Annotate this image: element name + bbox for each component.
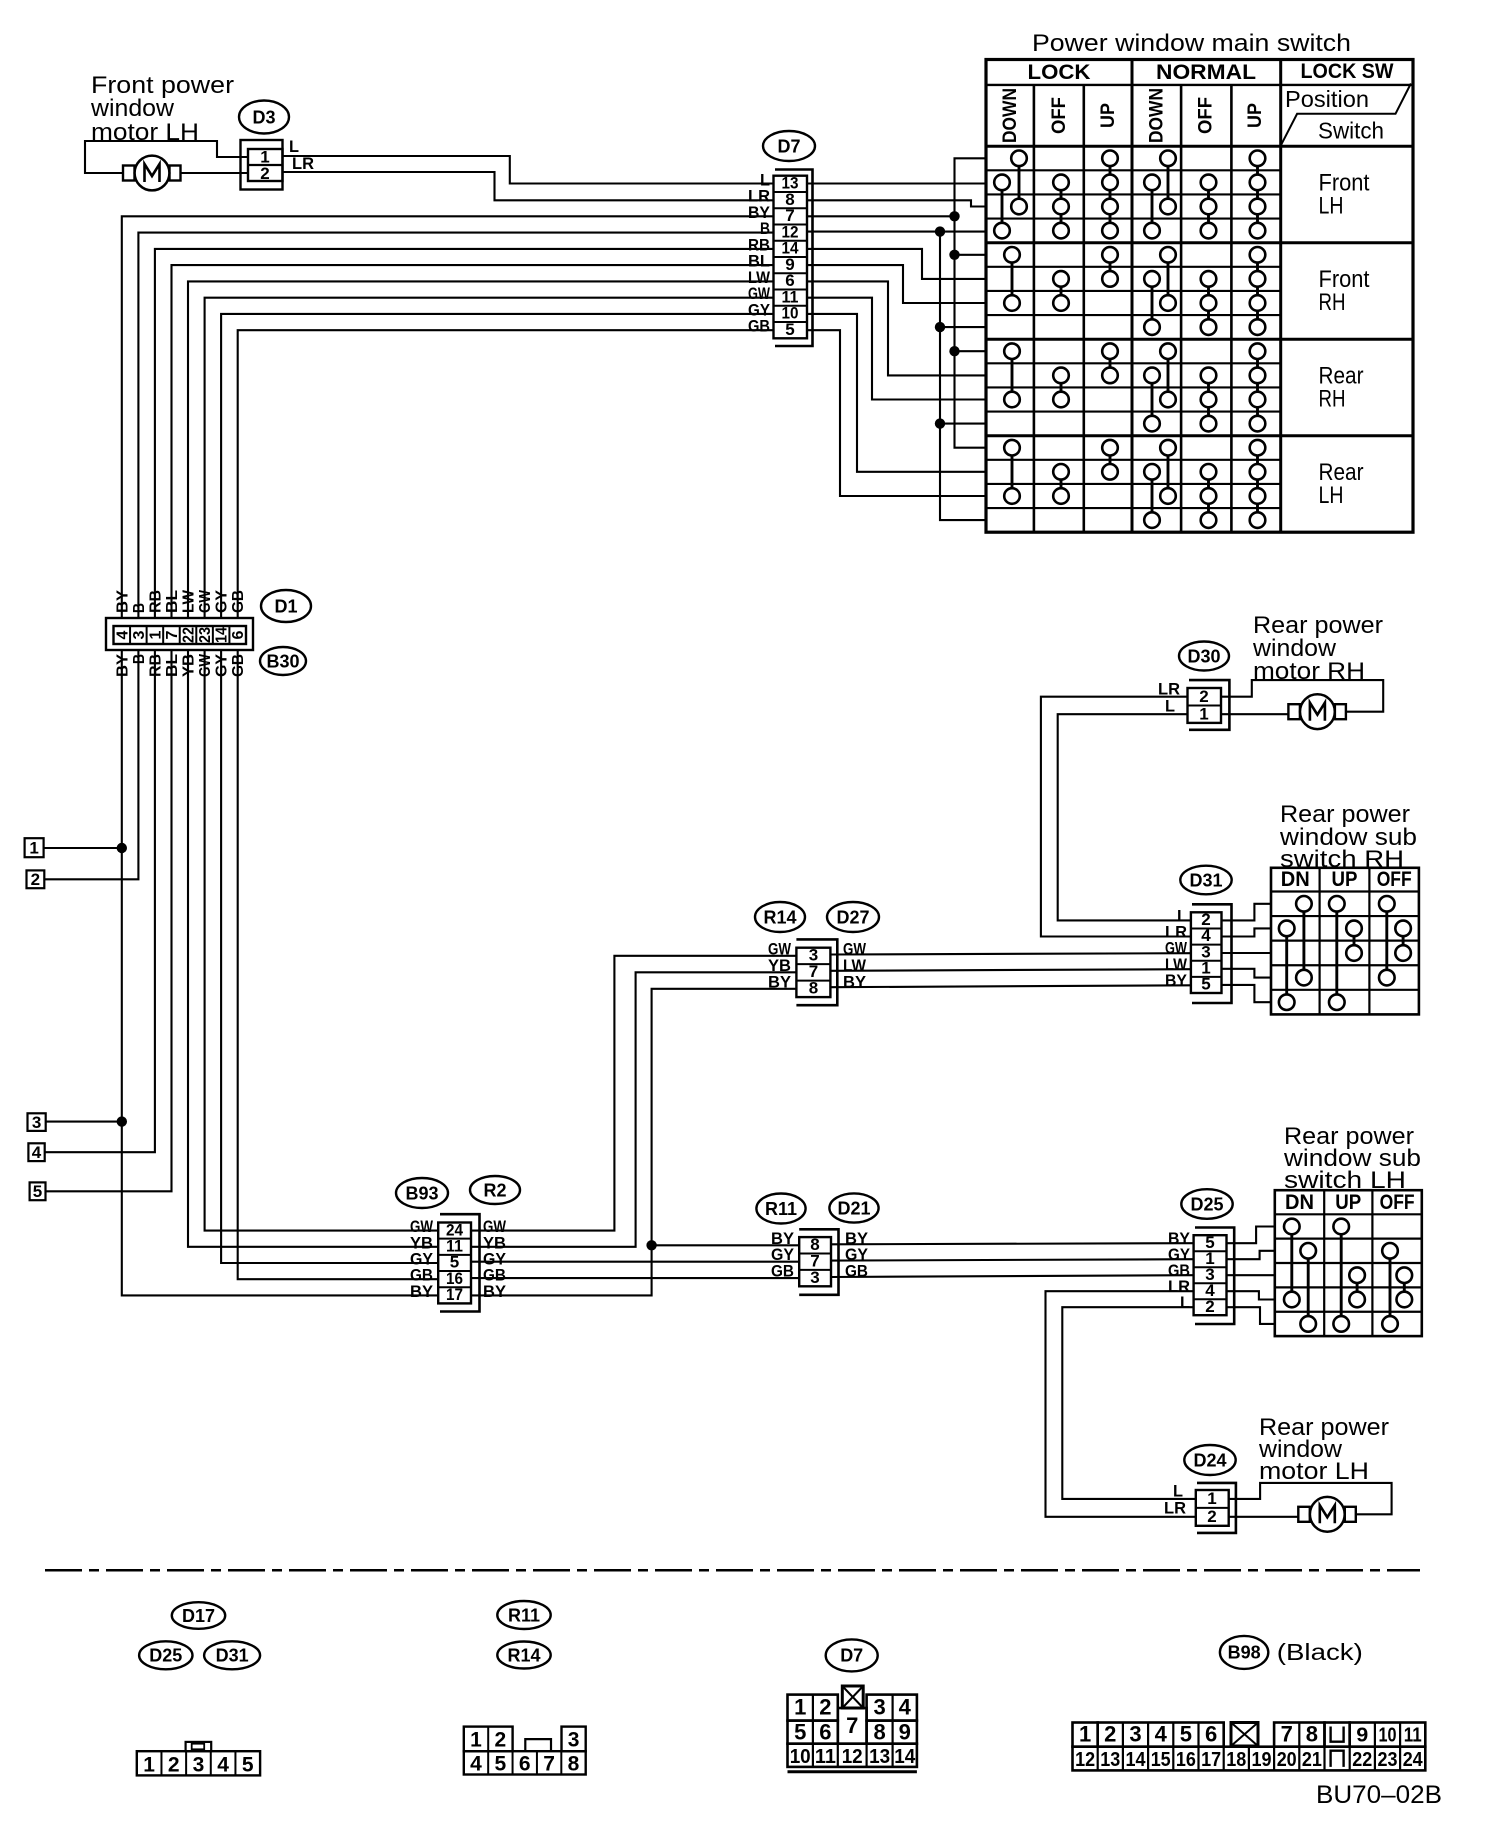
connector designator R14 [755, 902, 805, 932]
wire labels at R11 left [771, 1229, 795, 1281]
wire GW: R2 up to R14 pin3 [471, 956, 796, 1231]
wire GW: B30 down to B93 pin24 [205, 650, 439, 1231]
wire labels at D25 left [1168, 1229, 1191, 1312]
wire: motor right tab to D3 pin 2 [180, 172, 249, 174]
wire L: D25 pin2 down to D24 pin1 [1062, 1307, 1196, 1499]
connector designator B30 [260, 647, 306, 675]
wire LW: D27 to D31 pin1 [830, 969, 1191, 971]
svg-text:2: 2 [1104, 1722, 1116, 1747]
label: Rear power window motor RH [1252, 612, 1383, 685]
svg-text:R14: R14 [763, 907, 796, 927]
svg-text:4: 4 [470, 1752, 482, 1775]
contacts Front LH group [994, 151, 1265, 239]
wire: D30 pin2 loop over motor [1221, 680, 1383, 712]
bus B vertical to switch rows 8 12 16 [940, 232, 986, 520]
svg-text:18: 18 [1226, 1749, 1246, 1771]
rotated headers DOWN OFF UP [1000, 88, 1266, 143]
wire BL: D7 pin9 to switch row7 [807, 265, 986, 303]
svg-text:LOCK SW: LOCK SW [1301, 60, 1394, 83]
wire L: D7 pin13 to switch row2 [807, 182, 986, 184]
wire LW: D7 pin6 to switch row10 [807, 281, 986, 375]
label: Rear power window sub switch LH [1283, 1123, 1421, 1194]
svg-text:9: 9 [899, 1720, 911, 1745]
wire GY: B30 down to B93 pin5 [221, 650, 438, 1263]
svg-text:20: 20 [1277, 1749, 1297, 1771]
svg-text:1: 1 [1199, 705, 1208, 724]
svg-text:BU70–02B: BU70–02B [1316, 1781, 1442, 1809]
svg-text:D7: D7 [777, 136, 800, 156]
tag 3 box and wire [28, 1113, 122, 1132]
svg-text:LH: LH [1319, 192, 1344, 219]
svg-text:16: 16 [1176, 1749, 1196, 1771]
svg-text:DOWN: DOWN [1000, 88, 1021, 143]
svg-text:24: 24 [1403, 1749, 1424, 1771]
connector designator R2 [470, 1176, 520, 1204]
svg-text:1: 1 [29, 838, 38, 857]
wire BY: D27 to D31 pin5 [830, 985, 1191, 987]
svg-text:5: 5 [242, 1754, 254, 1777]
wire GW: D7 pin11 to switch row11 [807, 298, 986, 400]
connector R14/D27 with pins 3 7 8 [796, 939, 837, 1005]
svg-text:17: 17 [1201, 1749, 1221, 1771]
wire labels above D1 [114, 589, 247, 613]
wire GB: R2 to R11 pin3 [471, 1277, 799, 1279]
svg-text:2: 2 [819, 1695, 831, 1720]
svg-text:8: 8 [568, 1752, 580, 1775]
wire GW: D27 to D31 pin3 [830, 953, 1191, 954]
wire: D30 pin1 to motor [1221, 713, 1288, 715]
wires D31 pins to sub table [1222, 904, 1272, 1002]
svg-text:4: 4 [114, 630, 131, 639]
svg-text:19: 19 [1252, 1749, 1272, 1771]
wires D25 pins to sub table [1227, 1227, 1275, 1324]
svg-text:D17: D17 [182, 1606, 215, 1626]
svg-text:Power window main switch: Power window main switch [1032, 30, 1351, 57]
connector designator R11 [756, 1194, 805, 1224]
wire GB: D7 pin5 to switch row15 [807, 330, 986, 496]
junction dot tag1 on BY [117, 843, 127, 853]
contacts Rear RH group [1004, 343, 1265, 431]
connector face view D7 pins 1-14 [788, 1686, 917, 1772]
wire labels at R2 right [483, 1217, 507, 1301]
wire BL: D1 up and across to D7 [172, 265, 775, 618]
svg-text:11: 11 [1404, 1725, 1422, 1747]
svg-text:D30: D30 [1187, 646, 1220, 666]
wire: D24 pin2 to motor [1229, 1516, 1299, 1518]
svg-text:D7: D7 [840, 1646, 863, 1666]
svg-text:22: 22 [1352, 1749, 1372, 1771]
connector designator R11 bottom [497, 1601, 550, 1629]
connector face view D17/D25/D31 pins 1-5 [137, 1742, 260, 1777]
svg-text:UP: UP [1245, 103, 1266, 128]
switch name Rear RH [1319, 362, 1364, 412]
svg-text:4: 4 [32, 1143, 42, 1162]
connector designator D17 bottom [172, 1602, 225, 1629]
svg-text:17: 17 [446, 1285, 463, 1304]
svg-text:BY: BY [483, 1282, 507, 1301]
svg-text:BL: BL [164, 590, 181, 613]
svg-text:15: 15 [1151, 1749, 1171, 1771]
svg-text:3: 3 [1129, 1722, 1141, 1747]
wire L: D31 pin2 up to D30 pin1 [1058, 714, 1191, 920]
svg-text:21: 21 [1302, 1749, 1322, 1771]
tag 5 box [30, 1182, 46, 1201]
wire LR: D31 pin4 up to D30 pin2 [1041, 697, 1191, 937]
svg-text:GY: GY [214, 590, 231, 613]
svg-text:GB: GB [771, 1262, 794, 1281]
wire: D24 pin1 loop over motor [1229, 1483, 1392, 1514]
svg-text:L: L [1165, 697, 1175, 716]
connector designator D3 [239, 101, 289, 134]
svg-text:GB: GB [748, 317, 770, 336]
switch name Rear LH [1319, 459, 1364, 509]
svg-text:3: 3 [193, 1754, 205, 1777]
connector designator D7 [763, 131, 815, 161]
wire RB: D7 pin14 to switch row6 [807, 249, 986, 279]
svg-text:R11: R11 [508, 1605, 540, 1625]
wire BY: R2 up to R14 pin8 and R11 pin8 [471, 989, 796, 1296]
svg-text:R2: R2 [483, 1180, 506, 1200]
svg-text:4: 4 [899, 1695, 912, 1720]
motor M front LH [123, 156, 181, 191]
svg-text:BY: BY [1165, 971, 1188, 990]
svg-text:2: 2 [1199, 687, 1208, 706]
connector D24 pins 1 2 [1196, 1483, 1236, 1533]
wire YB: B30 down to B93 pin11 [188, 650, 438, 1247]
tag 1 box and wire [25, 838, 122, 857]
svg-text:2: 2 [1205, 1297, 1214, 1316]
connector R11/D21 with pins 8 7 3 [799, 1229, 838, 1295]
svg-text:23: 23 [1378, 1749, 1398, 1771]
svg-text:R14: R14 [507, 1645, 540, 1665]
svg-text:B: B [131, 603, 148, 613]
svg-text:D31: D31 [1189, 870, 1222, 890]
svg-text:D25: D25 [1190, 1194, 1223, 1214]
svg-text:OFF: OFF [1049, 97, 1070, 134]
wire labels at D21 right [845, 1229, 869, 1281]
svg-text:2: 2 [168, 1754, 180, 1777]
junction dots on B bus [935, 226, 945, 236]
svg-text:1: 1 [147, 630, 164, 639]
svg-text:GW: GW [197, 589, 214, 613]
svg-text:LW: LW [181, 589, 198, 613]
wire BY: D7 pin7 to BY bus [807, 215, 955, 217]
power window main switch table grid [986, 60, 1413, 533]
wire LR: D3 pin2 to D7 pin8 [283, 172, 775, 200]
svg-text:B30: B30 [266, 651, 299, 671]
connector face view B98 pins 1-24 [1073, 1722, 1426, 1771]
svg-text:6: 6 [230, 630, 247, 639]
svg-text:3: 3 [32, 1113, 41, 1132]
wire RB: B30 down to tag 4 [45, 650, 155, 1152]
wire GY: D7 pin10 to switch row14 [807, 314, 986, 472]
svg-text:D21: D21 [837, 1198, 870, 1218]
wire GB: D1 up and across to D7 [238, 330, 774, 618]
wire B: D1 up and across to D7 [138, 233, 774, 618]
svg-text:11: 11 [815, 1746, 836, 1768]
svg-text:4: 4 [217, 1754, 229, 1777]
svg-text:3: 3 [131, 630, 148, 639]
svg-text:14: 14 [1126, 1749, 1147, 1771]
connector D25 pins 5 1 3 4 2 [1194, 1228, 1235, 1325]
wire GB: D21 to D25 pin3 [831, 1275, 1194, 1277]
wire BY: D21 to D25 pin5 [831, 1243, 1194, 1244]
wire labels at B93 left [410, 1217, 434, 1301]
svg-text:OFF: OFF [1196, 97, 1217, 134]
svg-text:7: 7 [1281, 1722, 1293, 1747]
svg-text:7: 7 [543, 1752, 555, 1775]
wire B: D7 pin12 to switch row4 [807, 231, 986, 233]
svg-text:DN: DN [1285, 1191, 1314, 1214]
svg-text:2: 2 [1207, 1507, 1216, 1526]
wire LW: D1 up and across to D7 [188, 281, 774, 618]
Position Switch diagonal header [1281, 84, 1411, 145]
svg-text:13: 13 [1100, 1749, 1120, 1771]
svg-text:UP: UP [1332, 868, 1358, 891]
contacts sub switch LH [1284, 1219, 1412, 1332]
wire labels at D7 left [748, 170, 771, 335]
svg-text:LOCK: LOCK [1028, 61, 1091, 84]
connector D31 pins 2 4 3 1 5 [1191, 904, 1232, 1003]
svg-text:D24: D24 [1193, 1450, 1226, 1470]
svg-text:D27: D27 [836, 907, 869, 927]
svg-text:8: 8 [873, 1720, 885, 1745]
wire GB: B30 down to B93 pin16 [238, 650, 439, 1279]
svg-text:BY: BY [410, 1282, 434, 1301]
svg-text:RB: RB [147, 590, 164, 613]
svg-text:2: 2 [495, 1729, 507, 1752]
svg-text:22: 22 [181, 627, 198, 643]
connector designator B98 bottom [1220, 1636, 1363, 1669]
svg-text:UP: UP [1335, 1191, 1361, 1214]
label: Rear power window sub switch RH [1279, 801, 1417, 873]
svg-text:RH: RH [1319, 385, 1346, 412]
svg-text:1: 1 [470, 1729, 482, 1752]
svg-text:3: 3 [568, 1729, 580, 1752]
wire labels at D27 right [843, 939, 867, 991]
svg-text:12: 12 [842, 1746, 863, 1768]
svg-text:DOWN: DOWN [1147, 88, 1168, 143]
svg-text:7: 7 [846, 1713, 858, 1738]
svg-text:OFF: OFF [1380, 1191, 1415, 1214]
svg-text:1: 1 [794, 1695, 806, 1720]
svg-text:5: 5 [794, 1720, 806, 1745]
svg-text:14: 14 [214, 627, 231, 643]
svg-text:window: window [90, 95, 175, 122]
wire RB: D1 up and across to D7 [155, 249, 774, 618]
svg-text:GB: GB [230, 590, 247, 613]
wire BY: D1 up and across to D7 [122, 216, 774, 618]
svg-text:OFF: OFF [1377, 868, 1412, 891]
junction dots on BY bus [949, 211, 959, 221]
svg-text:23: 23 [197, 627, 214, 643]
motor M rear RH [1288, 694, 1346, 729]
svg-text:D3: D3 [252, 107, 275, 127]
svg-text:8: 8 [809, 979, 818, 998]
wire GW: D1 up and across to D7 [205, 298, 774, 618]
wire labels LR L at D30 [1158, 680, 1180, 716]
wire BL: B30 down to tag 5 [46, 650, 172, 1191]
switch name Front RH [1319, 266, 1370, 316]
svg-text:5: 5 [33, 1182, 42, 1201]
connector face view R11/R14 pins 1-8 [464, 1727, 586, 1776]
svg-text:BY: BY [114, 590, 131, 613]
svg-text:L: L [1180, 1293, 1190, 1312]
connector designator D7 bottom [826, 1639, 878, 1671]
svg-text:3: 3 [810, 1268, 819, 1287]
svg-text:Position: Position [1285, 86, 1369, 112]
dashed separator line [45, 1569, 1420, 1572]
svg-text:BY: BY [843, 972, 867, 991]
svg-text:NORMAL: NORMAL [1156, 61, 1256, 84]
svg-text:(Black): (Black) [1277, 1639, 1363, 1665]
svg-text:D1: D1 [274, 596, 297, 616]
svg-text:1: 1 [1079, 1722, 1091, 1747]
svg-text:RH: RH [1319, 289, 1346, 316]
svg-text:6: 6 [519, 1752, 531, 1775]
wire BY: B30 down to B93 pin17 [122, 650, 438, 1295]
connector designator D31 [1180, 866, 1231, 895]
svg-text:LH: LH [1319, 482, 1344, 509]
svg-text:1: 1 [1207, 1489, 1216, 1508]
contacts Rear LH group [1004, 440, 1265, 528]
connector D7 with pins 13 8 7 12 14 9 6 11 10 5 [774, 170, 813, 347]
connector D1/B30 with pins 4 3 1 7 22 23 14 6 [106, 618, 253, 650]
connector designator B93 [396, 1178, 448, 1208]
svg-text:D31: D31 [216, 1646, 249, 1666]
connector designator D24 [1184, 1445, 1235, 1475]
wire L: D3 pin1 to D7 pin13 [283, 156, 775, 184]
svg-text:2: 2 [260, 164, 269, 183]
svg-text:LR: LR [1164, 1499, 1186, 1518]
svg-text:13: 13 [869, 1746, 890, 1768]
svg-text:LR: LR [292, 154, 314, 173]
svg-text:Switch: Switch [1318, 118, 1384, 144]
connector designator D30 [1179, 642, 1229, 671]
label: Rear power window motor LH [1258, 1414, 1389, 1485]
svg-text:GY: GY [214, 654, 231, 677]
svg-text:6: 6 [819, 1720, 831, 1745]
junction dot BY to R11 [646, 1240, 656, 1250]
svg-text:8: 8 [1306, 1722, 1318, 1747]
tag 2 box [27, 870, 45, 889]
sub switch RH table grid [1271, 868, 1419, 1015]
sub switch LH table grid [1275, 1190, 1422, 1336]
connector D3 [241, 140, 283, 190]
contacts sub switch RH [1279, 896, 1411, 1010]
wire LR: D25 pin4 down to D24 pin2 [1046, 1291, 1196, 1517]
svg-text:UP: UP [1098, 103, 1119, 128]
svg-text:3: 3 [873, 1695, 885, 1720]
svg-text:5: 5 [495, 1752, 507, 1775]
wire B: B30 down to tag 2 [44, 650, 138, 879]
connector designator D1 [261, 590, 311, 622]
wire labels L LR at D24 [1164, 1482, 1186, 1518]
svg-text:5: 5 [785, 320, 794, 339]
motor M rear LH [1298, 1497, 1356, 1532]
connector designator D27 [827, 902, 879, 932]
tag 4 box [28, 1143, 44, 1162]
bus BY vertical to switch rows 1 5 9 13 [955, 158, 987, 447]
connector designator D21 [829, 1193, 878, 1222]
wire GY: D1 up and across to D7 [221, 314, 774, 618]
svg-text:1: 1 [143, 1754, 155, 1777]
connector designator D25 bottom [139, 1641, 192, 1669]
label: Front power window motor LH [90, 72, 234, 146]
svg-text:B93: B93 [405, 1183, 438, 1203]
wire labels at D31 left [1165, 906, 1188, 990]
connector B93/R2 with pins 24 11 5 16 17 [438, 1214, 479, 1311]
svg-text:12: 12 [1075, 1749, 1095, 1771]
svg-text:6: 6 [1205, 1722, 1217, 1747]
wire YB: R2 up to R14 pin7 [471, 972, 796, 1247]
wire labels below D1 [114, 653, 247, 677]
svg-text:B98: B98 [1228, 1643, 1261, 1663]
wire GY: D21 to D25 pin1 [831, 1259, 1194, 1260]
svg-text:14: 14 [894, 1746, 916, 1768]
svg-text:R11: R11 [765, 1199, 797, 1219]
svg-text:DN: DN [1281, 868, 1310, 891]
table header texts LOCK NORMAL LOCK SW [1028, 60, 1394, 84]
wire GY: R2 to R11 pin7 [471, 1261, 799, 1263]
svg-text:9: 9 [1356, 1725, 1368, 1747]
svg-text:2: 2 [31, 870, 40, 889]
switch name Front LH [1319, 169, 1370, 219]
svg-text:7: 7 [164, 630, 181, 639]
svg-text:4: 4 [1155, 1722, 1168, 1747]
connector D30 pins 2 1 [1188, 680, 1230, 730]
svg-text:10: 10 [1379, 1725, 1397, 1747]
wire labels at R14 left [768, 939, 792, 991]
connector designator R14 bottom [497, 1642, 550, 1669]
svg-text:motor LH: motor LH [1259, 1458, 1369, 1485]
svg-text:D25: D25 [149, 1646, 182, 1666]
connector designator D31 bottom [204, 1641, 260, 1669]
svg-text:5: 5 [1180, 1722, 1192, 1747]
junction dot tag3 on BY [117, 1116, 127, 1126]
svg-text:BY: BY [768, 972, 792, 991]
connector designator D25 [1181, 1189, 1232, 1219]
wire LR: D7 pin8 to switch row3 [807, 200, 986, 206]
contacts Front RH group [1004, 247, 1265, 335]
svg-text:5: 5 [1201, 975, 1210, 994]
wire: motor loop to D3 pin 1 [85, 141, 249, 173]
svg-text:10: 10 [790, 1746, 811, 1768]
